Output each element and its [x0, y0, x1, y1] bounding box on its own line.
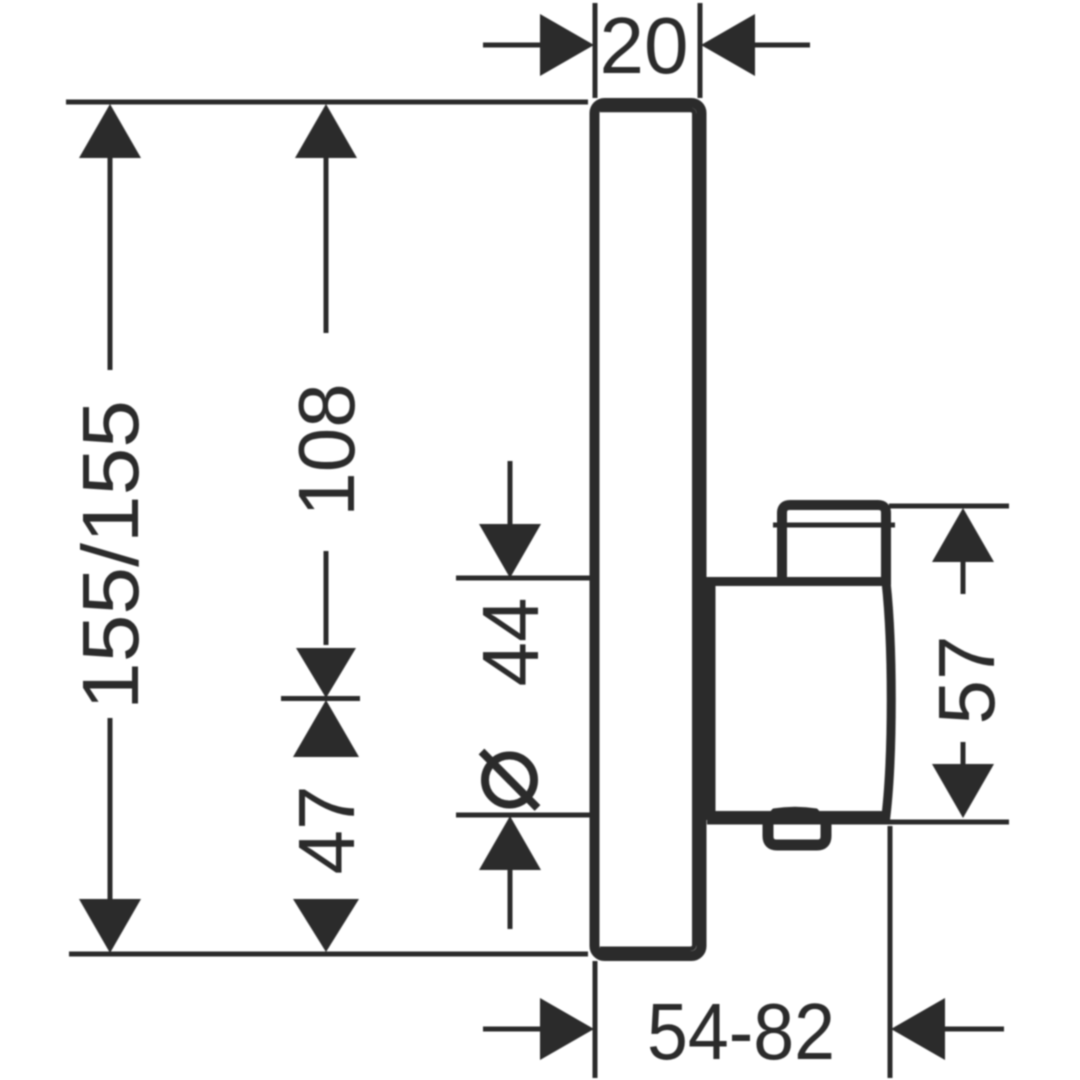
extension line top-left (x=595)	[593, 3, 598, 98]
extension line bottom-right (x=890)	[888, 826, 893, 1078]
dimension 155/155 lower shaft	[108, 718, 113, 901]
tick line y=578 (diameter 44 top)	[456, 576, 592, 581]
handle grip upper block	[782, 505, 886, 585]
dimension 44 lower shaft	[508, 868, 513, 929]
bottom reference line y=954	[69, 952, 588, 957]
dimension 54-82 right arrow shaft	[945, 1027, 1004, 1032]
dimension 155/155 top arrowhead	[79, 104, 141, 158]
dimension 47 bottom arrowhead	[293, 899, 359, 952]
bottom tab (valve cap)	[768, 819, 826, 845]
dimension 108 upper shaft	[324, 156, 329, 333]
wall plate inner face line	[600, 110, 694, 949]
svg-text:47: 47	[282, 786, 371, 875]
wall plate outer body	[595, 103, 702, 956]
dimension 108 top arrowhead	[295, 104, 357, 158]
dimension 20 left arrow shaft	[483, 43, 541, 48]
dimension 20 right arrowhead	[701, 14, 755, 76]
57 bottom extension line y=823	[707, 820, 1009, 825]
top reference line y=102	[66, 100, 588, 105]
handle knob body	[711, 582, 891, 816]
dimension 44 top arrowhead	[479, 524, 541, 578]
bump arc above tab	[760, 807, 830, 822]
dimension 44 bottom arrowhead	[479, 816, 541, 870]
svg-text:54-82: 54-82	[647, 987, 835, 1076]
dimension 47 top arrowhead	[293, 700, 359, 757]
extension line bottom-left (x=595)	[593, 961, 598, 1078]
dimension 44 diameter symbol circle	[485, 756, 534, 805]
tick line y=697 between 108 and 47	[281, 696, 360, 701]
dimension 155/155 bottom arrowhead	[79, 899, 141, 953]
dimension 44 upper shaft	[508, 461, 513, 526]
dimension 57 upper shaft	[961, 560, 966, 594]
dimension 54-82 left arrowhead	[540, 998, 594, 1060]
dimension 20 left arrowhead	[540, 14, 594, 76]
handle grip inner line y=525	[773, 523, 895, 528]
dimension 54-82 left arrow shaft	[483, 1027, 541, 1032]
dimension 54-82 right arrowhead	[891, 998, 945, 1060]
dimension 57 lower shaft	[961, 742, 966, 764]
svg-text:57: 57	[922, 636, 1011, 725]
dimension 44 diameter symbol slash	[482, 752, 538, 809]
57 top extension line y=506	[889, 504, 1009, 509]
svg-text:108: 108	[282, 383, 371, 516]
svg-text:155/155: 155/155	[66, 400, 155, 710]
dimension 57 bottom arrowhead	[932, 764, 994, 818]
dimension 108 bottom arrowhead	[296, 648, 356, 698]
svg-text:20: 20	[600, 1, 689, 90]
dimension 155/155 upper shaft	[108, 156, 113, 370]
dimension 57 top arrowhead	[932, 508, 994, 562]
dimension 20 right arrow shaft	[755, 43, 810, 48]
extension line top-right (x=700)	[698, 3, 703, 98]
tick line y=815 (diameter 44 bottom)	[456, 813, 592, 818]
dimension 108 lower shaft	[324, 551, 329, 645]
svg-text:44: 44	[466, 598, 555, 687]
